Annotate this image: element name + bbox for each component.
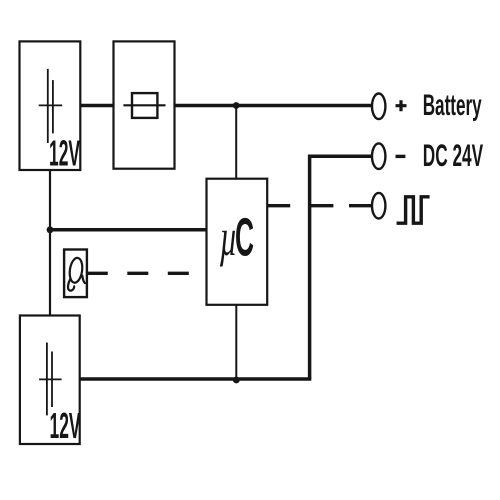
battery B1 box — [20, 41, 81, 170]
wire battery B2 to return bus — [80, 377, 312, 381]
dashed wire µC to pulse terminal — [267, 204, 372, 207]
temperature sensor box — [64, 250, 87, 298]
microcontroller U1 box — [207, 179, 268, 305]
svg-text:12V: 12V — [50, 406, 81, 447]
svg-text:C: C — [235, 207, 254, 267]
svg-text:Battery: Battery — [423, 89, 482, 122]
svg-text:12V: 12V — [49, 134, 80, 175]
battery B1 cell symbol — [39, 69, 63, 143]
terminal - DC 24V — [372, 143, 385, 169]
wire battery B1 to battery B2 — [49, 170, 51, 316]
wire fuse to + Battery terminal — [175, 104, 373, 108]
wire µC bottom to return bus — [235, 305, 237, 379]
terminal + Battery — [372, 94, 385, 120]
pulse waveform symbol — [397, 197, 430, 223]
minus sign — [396, 155, 406, 158]
junction battery bus to µC — [47, 226, 54, 233]
terminal pulse output — [372, 193, 385, 219]
wire junction to µC left — [50, 228, 207, 232]
plus sign — [396, 100, 407, 111]
temperature sensor symbol ϑ — [68, 257, 85, 291]
junction return bus to µC — [233, 377, 240, 384]
wire DC 24V terminal to return bus — [310, 156, 372, 379]
battery B2 box — [20, 316, 80, 445]
wire battery B1 to fuse — [80, 104, 113, 108]
wire junction to µC top — [235, 106, 237, 179]
fuse box — [114, 41, 175, 168]
battery B2 cell symbol — [39, 343, 62, 416]
junction supply tap to microcontroller — [233, 102, 240, 109]
dashed wire sensor to µC — [87, 272, 207, 275]
svg-text:DC 24V: DC 24V — [423, 139, 483, 174]
fuse symbol F1 — [123, 93, 165, 118]
